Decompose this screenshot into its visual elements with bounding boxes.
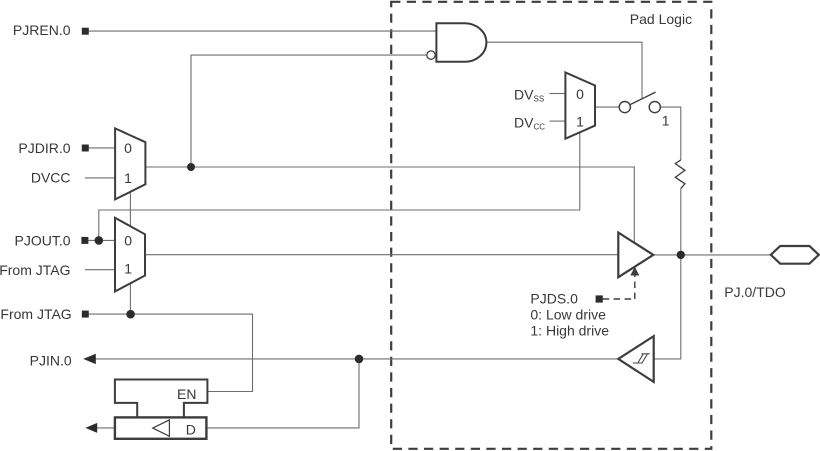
svg-text:PJDS.0: PJDS.0 — [530, 290, 578, 306]
svg-text:From JTAG: From JTAG — [0, 262, 71, 278]
svg-text:0: Low drive: 0: Low drive — [530, 306, 606, 322]
svg-text:1: 1 — [662, 113, 670, 129]
svg-text:SS: SS — [534, 95, 545, 104]
svg-text:DVCC: DVCC — [31, 170, 71, 186]
svg-text:PJIN.0: PJIN.0 — [30, 353, 72, 369]
svg-text:DV: DV — [514, 115, 534, 131]
svg-text:0: 0 — [124, 233, 132, 249]
svg-text:PJOUT.0: PJOUT.0 — [14, 233, 70, 249]
svg-text:0: 0 — [576, 86, 584, 102]
svg-text:PJ.0/TDO: PJ.0/TDO — [724, 284, 786, 300]
svg-text:1: 1 — [124, 261, 132, 277]
svg-text:1: 1 — [576, 114, 584, 130]
svg-text:PJDIR.0: PJDIR.0 — [18, 140, 70, 156]
svg-text:D: D — [186, 422, 196, 438]
svg-text:1: 1 — [124, 170, 132, 186]
svg-text:1: High drive: 1: High drive — [530, 322, 609, 338]
svg-text:From JTAG: From JTAG — [0, 306, 71, 322]
svg-text:CC: CC — [534, 123, 546, 132]
svg-text:0: 0 — [124, 140, 132, 156]
svg-text:EN: EN — [177, 386, 196, 402]
svg-text:Pad Logic: Pad Logic — [630, 11, 692, 27]
svg-text:PJREN.0: PJREN.0 — [13, 22, 71, 38]
svg-text:DV: DV — [514, 86, 534, 102]
